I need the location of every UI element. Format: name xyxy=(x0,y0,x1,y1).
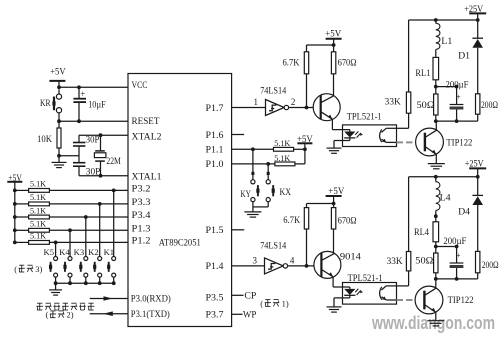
svg-text:P1.0: P1.0 xyxy=(206,160,224,170)
svg-text:K2: K2 xyxy=(88,247,99,257)
svg-text:P1.6: P1.6 xyxy=(206,131,224,141)
svg-text:6.7K: 6.7K xyxy=(283,58,300,68)
svg-text:P1.2: P1.2 xyxy=(132,237,151,247)
svg-text:CP: CP xyxy=(244,292,256,302)
svg-text:TIP122: TIP122 xyxy=(446,138,472,148)
svg-text:RL4: RL4 xyxy=(414,227,429,237)
svg-text:P3.4: P3.4 xyxy=(132,211,151,221)
svg-text:XTAL2: XTAL2 xyxy=(132,132,162,142)
svg-text:670Ω: 670Ω xyxy=(338,216,357,226)
svg-text:+: + xyxy=(80,89,85,99)
svg-text:D1: D1 xyxy=(458,51,470,61)
svg-text:K1: K1 xyxy=(104,247,115,257)
svg-text:74LS14: 74LS14 xyxy=(260,240,286,250)
svg-text:+25V: +25V xyxy=(465,159,484,169)
svg-text:2: 2 xyxy=(291,97,296,107)
svg-text:30P: 30P xyxy=(86,166,101,176)
svg-text:3): 3) xyxy=(35,264,42,274)
svg-text:K4: K4 xyxy=(59,247,70,257)
svg-text:5.1K: 5.1K xyxy=(30,192,47,202)
svg-text:KX: KX xyxy=(280,187,292,197)
svg-text:200µF: 200µF xyxy=(446,79,469,89)
svg-text:200µF: 200µF xyxy=(443,236,466,246)
svg-text:TPL521-1: TPL521-1 xyxy=(348,273,383,283)
svg-text:+: + xyxy=(456,251,461,260)
svg-text:VCC: VCC xyxy=(132,81,148,91)
svg-text:+5V: +5V xyxy=(328,186,344,196)
svg-text:P3.1(TXD): P3.1(TXD) xyxy=(131,309,170,320)
svg-text:P3.7: P3.7 xyxy=(206,310,224,320)
svg-text:(: ( xyxy=(14,264,17,274)
svg-text:10K: 10K xyxy=(37,134,52,144)
svg-text:+25V: +25V xyxy=(464,4,483,14)
svg-text:RESET: RESET xyxy=(132,117,160,127)
svg-text:K3: K3 xyxy=(74,247,85,257)
svg-text:5.1K: 5.1K xyxy=(274,138,291,148)
svg-text:200Ω: 200Ω xyxy=(481,100,498,110)
svg-text:5.1K: 5.1K xyxy=(30,219,47,229)
svg-text:1: 1 xyxy=(254,97,259,107)
svg-text:L1: L1 xyxy=(441,36,452,46)
svg-text:2): 2) xyxy=(67,310,74,320)
svg-text:5.1K: 5.1K xyxy=(30,205,47,215)
svg-text:670Ω: 670Ω xyxy=(338,58,357,68)
svg-text:P1.3: P1.3 xyxy=(132,225,151,235)
svg-text:(: ( xyxy=(260,299,263,309)
svg-text:www.diangon.com: www.diangon.com xyxy=(371,312,495,333)
svg-text:P1.7: P1.7 xyxy=(206,104,224,114)
svg-text:P3.2: P3.2 xyxy=(132,185,151,195)
svg-text:+5V: +5V xyxy=(50,67,66,77)
svg-text:RL1: RL1 xyxy=(415,68,430,78)
svg-text:50Ω: 50Ω xyxy=(417,100,435,110)
svg-text:22M: 22M xyxy=(106,156,121,166)
svg-text:+5V: +5V xyxy=(325,29,341,39)
svg-text:10µF: 10µF xyxy=(88,99,106,109)
svg-text:5.1K: 5.1K xyxy=(30,231,47,241)
svg-text:33K: 33K xyxy=(387,256,404,266)
svg-text:4: 4 xyxy=(290,255,295,265)
svg-text:5.1K: 5.1K xyxy=(274,153,291,163)
svg-text:74LS14: 74LS14 xyxy=(260,85,286,95)
svg-text:XTAL1: XTAL1 xyxy=(132,172,162,182)
svg-text:(: ( xyxy=(46,310,49,320)
svg-text:200Ω: 200Ω xyxy=(482,260,499,270)
svg-text:50Ω: 50Ω xyxy=(415,255,433,265)
svg-text:+: + xyxy=(456,93,461,102)
svg-text:P3.5: P3.5 xyxy=(206,294,224,304)
svg-text:K5: K5 xyxy=(44,247,55,257)
svg-text:TIP122: TIP122 xyxy=(448,295,474,305)
svg-text:KY: KY xyxy=(240,189,251,199)
svg-text:D4: D4 xyxy=(458,207,471,217)
svg-text:6.7K: 6.7K xyxy=(283,215,300,225)
svg-text:P3.0(RXD): P3.0(RXD) xyxy=(131,294,171,305)
svg-text:P1.4: P1.4 xyxy=(206,262,224,272)
svg-text:9014: 9014 xyxy=(340,251,362,261)
svg-text:TPL521-1: TPL521-1 xyxy=(347,111,382,121)
svg-text:33K: 33K xyxy=(385,97,402,107)
svg-text:30P: 30P xyxy=(86,134,100,144)
svg-text:P1.1: P1.1 xyxy=(206,146,224,156)
svg-text:AT89C2051: AT89C2051 xyxy=(159,239,201,249)
svg-text:L4: L4 xyxy=(440,192,452,202)
svg-text:1): 1) xyxy=(282,299,289,309)
svg-text:KR: KR xyxy=(40,98,51,108)
svg-text:3: 3 xyxy=(253,255,258,265)
svg-text:P1.5: P1.5 xyxy=(206,226,224,236)
svg-text:P3.3: P3.3 xyxy=(132,198,151,208)
svg-text:5.1K: 5.1K xyxy=(30,179,47,189)
svg-text:WP: WP xyxy=(243,310,257,320)
